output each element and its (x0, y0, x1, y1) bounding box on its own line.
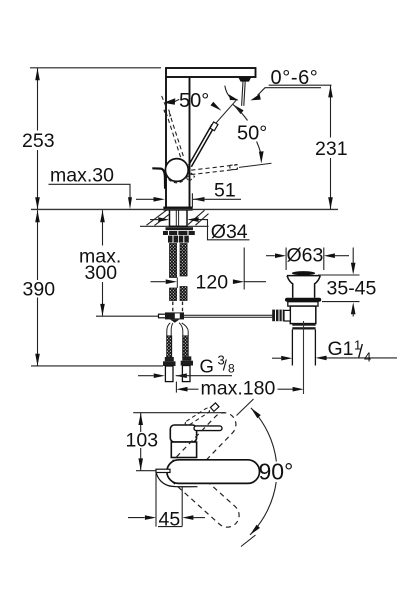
dim max.180 (175, 382, 177, 393)
svg-text:103: 103 (126, 429, 159, 451)
Ø63 extension lines (286, 248, 324, 271)
svg-text:max.180: max.180 (201, 377, 276, 399)
dim 253 line (37, 68, 39, 209)
dashed rotated spout up (162, 408, 241, 488)
threaded shank (170, 210, 188, 227)
svg-text:51: 51 (214, 180, 236, 202)
lower braided connector right (183, 336, 189, 357)
rod coupling block (165, 312, 184, 319)
90 arc top ray (237, 399, 254, 416)
lever ball (165, 159, 188, 182)
rod end pill (159, 314, 167, 318)
water stream (242, 82, 246, 106)
rod tab (156, 469, 170, 472)
spout top bar (166, 68, 256, 77)
counter hatching (147, 210, 209, 225)
svg-text:50°: 50° (237, 123, 267, 145)
G3/8 pipes (165, 366, 173, 382)
svg-text:8: 8 (228, 362, 235, 376)
dim 253 top extension line (30, 67, 161, 69)
faucet body right edge (189, 77, 191, 208)
body bottom bands (292, 324, 315, 326)
svg-text:Ø63: Ø63 (287, 244, 324, 266)
50deg upper arc right arrowhead (211, 102, 222, 111)
dim 120 left arrow (151, 281, 166, 283)
dim 35-45 (352, 248, 354, 265)
90 arc segment 1 (251, 408, 277, 462)
tailpipe (292, 330, 315, 366)
dashed lever up cap (164, 109, 171, 117)
connector nuts (165, 357, 174, 361)
dim 51 right extension line (191, 193, 193, 207)
svg-text:253: 253 (22, 130, 55, 152)
50deg lower arc bottom segment (257, 142, 261, 153)
faucet body left edge (165, 77, 167, 208)
svg-text:4: 4 (364, 350, 371, 365)
nut washer stack (166, 227, 194, 230)
dim 45 extension lines (156, 471, 182, 527)
hose fittings below washer (168, 236, 178, 243)
lever hook (down-left position) (152, 168, 165, 188)
svg-text:35-45: 35-45 (327, 277, 377, 299)
svg-text:120: 120 (196, 272, 229, 294)
gasket (285, 298, 321, 302)
dim 103 line (140, 413, 142, 470)
dashed lever down position (184, 165, 237, 176)
dashed diamond right of ball (186, 173, 194, 181)
90 arc segment 2 (250, 482, 276, 535)
max.30 leader (49, 184, 131, 198)
braided hose upper right segment1 (180, 244, 187, 277)
solid lever axis thin line (216, 99, 237, 123)
svg-text:390: 390 (23, 279, 56, 301)
solid lever rod (189, 124, 215, 166)
counter bottom line (140, 225, 209, 227)
braided hose right segment2 (180, 287, 187, 301)
0-6 leader diagonal (258, 88, 321, 96)
coupling bottom tip (170, 319, 180, 322)
svg-text:45: 45 (159, 509, 181, 531)
base plate (164, 207, 192, 210)
plug cap lens (292, 271, 315, 275)
drain knob (272, 310, 284, 322)
dashed lever down cap (230, 164, 238, 169)
hose tails below coupling (167, 323, 188, 336)
dim 51 right arrowhead and line (193, 197, 205, 202)
plug cap body (287, 276, 320, 298)
knob stem (284, 310, 290, 321)
top extension line (133, 412, 225, 414)
hose continuation dashes (173, 302, 183, 312)
dim 231 line (330, 85, 332, 209)
dim Ø34 arrow right + leader (187, 217, 198, 222)
pull rod left line (96, 315, 159, 317)
dim 120 extension line (243, 248, 245, 290)
90 arc arrowheads (251, 408, 261, 418)
dim G3/8 left arrow (138, 375, 154, 377)
dim 51 left line and arrowhead (136, 198, 158, 200)
Ø63 arrows (266, 255, 275, 257)
stream tilt arc left arrowhead (229, 94, 239, 100)
rotated lever end cap (210, 403, 219, 411)
dim max.300 line (102, 210, 104, 316)
svg-text:G: G (200, 356, 214, 377)
stream tilt arc left (225, 86, 231, 98)
lever bar top view (194, 426, 222, 431)
mounting surface line (31, 208, 338, 210)
90 arc bottom ray (241, 535, 256, 547)
dim 120 right arrow (233, 279, 244, 284)
body block upper (170, 425, 196, 442)
connector flanges (163, 361, 176, 366)
50deg upper arc left arrowhead (163, 98, 175, 105)
spout stadium top view (167, 460, 260, 484)
103 bottom extension line (136, 470, 156, 472)
svg-text:50°: 50° (179, 90, 209, 112)
flange (288, 302, 318, 306)
shank inner lines (176, 210, 178, 226)
svg-text:Ø34: Ø34 (211, 221, 248, 243)
dashed arc under ball (169, 180, 185, 183)
dim 45 arrows (128, 517, 145, 519)
pull rod right double line (184, 315, 273, 317)
svg-text:300: 300 (85, 262, 118, 284)
dim Ø34 arrow left (150, 219, 158, 221)
solid lever cap (210, 122, 218, 131)
centerline in gap (176, 278, 178, 289)
aerator (238, 77, 251, 81)
dim 253 arrowheads (35, 68, 40, 80)
body block lower (171, 442, 196, 458)
svg-text:231: 231 (315, 138, 348, 160)
50deg lower arc top arrowhead (233, 104, 244, 114)
dashed rotated spout down (162, 455, 244, 532)
spout collar curve (156, 473, 197, 487)
dim G3/8 right arrow (176, 373, 187, 378)
50deg lower arc bottom arrowhead (259, 151, 264, 163)
lower braided connector left (167, 336, 172, 357)
390 bottom extension line (31, 365, 163, 367)
max.30 arrowhead (128, 197, 132, 209)
braided hose upper left segment1 (170, 244, 177, 278)
dim 390 line (37, 210, 39, 366)
50deg lower arc top segment (233, 104, 248, 120)
stream tilt arc right arrowhead (leader arrow) (250, 94, 260, 100)
dim G1 1/4 (272, 357, 281, 359)
svg-text:90°: 90° (259, 459, 294, 485)
50deg upper arc left tail (175, 99, 179, 101)
braided hose left segment2 (170, 288, 177, 301)
drain centerline (303, 321, 305, 394)
svg-text:0°-6°: 0°-6° (271, 67, 319, 89)
dashed lever up-left position (162, 96, 184, 158)
dashed rotated lever (184, 407, 210, 426)
svg-text:max.30: max.30 (50, 164, 114, 186)
svg-text:G1: G1 (328, 338, 354, 360)
drain body (290, 306, 316, 324)
lever down axis thin line (239, 163, 272, 167)
0-6 underline / 231 top extension line (269, 84, 332, 86)
svg-text:/: / (358, 342, 363, 362)
